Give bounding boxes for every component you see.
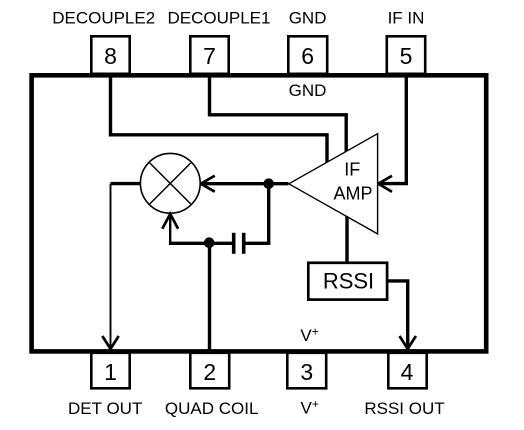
svg-text:DECOUPLE1: DECOUPLE1: [168, 8, 271, 27]
svg-text:AMP: AMP: [333, 184, 372, 204]
pin 5 box: [387, 36, 425, 74]
svg-text:DET OUT: DET OUT: [68, 399, 142, 418]
svg-text:IF IN: IF IN: [388, 8, 425, 27]
arrowhead up into mixer bottom: [162, 214, 178, 229]
pin 6 box: [288, 36, 327, 74]
svg-text:GND: GND: [289, 81, 327, 100]
wire pin 5 to IF amp input: [379, 75, 406, 184]
det out stem down to pin 1: [110, 184, 112, 348]
mixer U2 (quadrature detector) circle: [140, 153, 200, 213]
svg-text:QUAD COIL: QUAD COIL: [165, 399, 259, 418]
mixer X diagonal 2: [150, 163, 191, 204]
IC body: [32, 75, 487, 351]
svg-text:2: 2: [203, 359, 216, 385]
pin 3 box: [287, 353, 326, 389]
capacitor C1 left plate: [232, 233, 236, 254]
wire IF amp tip to mixer: [202, 182, 289, 185]
arrowhead into mixer right side: [201, 176, 215, 192]
svg-text:IF: IF: [344, 160, 360, 180]
mixer X diagonal 1: [150, 163, 191, 204]
wire capacitor to quad node: [169, 242, 234, 245]
svg-text:GND: GND: [289, 8, 327, 27]
junction node A (amp input tap): [263, 178, 274, 189]
wire mixer output left: [111, 182, 142, 185]
svg-text:4: 4: [401, 359, 414, 385]
wire pin 8 to IF amp: [111, 75, 328, 163]
arrowhead down into pin 1: [102, 336, 118, 349]
wire RSSI to pin 4: [388, 281, 408, 348]
svg-text:RSSI OUT: RSSI OUT: [364, 399, 444, 418]
quad input stem to mixer bottom: [169, 215, 171, 245]
IF amp triangle U1: [289, 134, 378, 234]
pin 2 box: [190, 353, 229, 389]
capacitor C1 right plate: [242, 233, 246, 254]
arrowhead into IF amp right side: [378, 176, 392, 192]
svg-text:DECOUPLE2: DECOUPLE2: [52, 8, 155, 27]
svg-text:RSSI: RSSI: [323, 269, 374, 294]
svg-text:6: 6: [301, 43, 314, 69]
wire node B to pin 2: [208, 243, 211, 351]
pin 7 box: [190, 36, 228, 74]
wire IF amp bottom to RSSI: [345, 217, 348, 263]
pin 1 box: [91, 353, 129, 389]
svg-text:8: 8: [104, 43, 117, 69]
wire pin 7 to IF amp: [210, 75, 347, 152]
RSSI block U3: [308, 263, 387, 300]
svg-text:1: 1: [104, 359, 117, 385]
arrowhead down into pin 4: [400, 336, 416, 349]
pin 4 box: [388, 353, 426, 389]
svg-text:3: 3: [300, 359, 313, 385]
svg-text:5: 5: [400, 43, 413, 69]
junction node B (quad coil node): [204, 237, 215, 248]
wire node A down to capacitor: [244, 184, 269, 244]
svg-text:7: 7: [203, 43, 216, 69]
pin 8 box: [91, 36, 129, 74]
